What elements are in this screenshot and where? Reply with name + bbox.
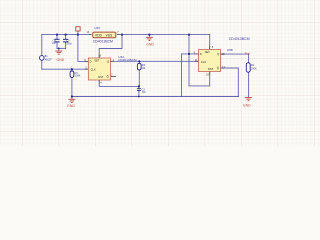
wire caps bottom join xyxy=(57,47,66,49)
wire C3 bottom stub xyxy=(138,91,140,97)
wire R3 top stub xyxy=(138,61,140,63)
junction C3 bottom on GND rail xyxy=(138,96,140,98)
ground on VSS rail xyxy=(146,37,153,40)
junction C5 on VDD rail xyxy=(65,34,67,36)
svg-text:GND: GND xyxy=(243,104,251,108)
pin 7 stub U3C xyxy=(116,34,120,36)
svg-text:100K: 100K xyxy=(251,67,257,70)
svg-text:100n: 100n xyxy=(66,42,72,45)
VCC power port xyxy=(76,27,80,31)
pin 12 stub U3B Qbar xyxy=(221,67,225,69)
wire R1 bottom to rail xyxy=(71,77,73,96)
wire R3 bottom xyxy=(138,70,140,87)
junction VCC port / D1 feed xyxy=(77,34,79,36)
svg-text:GND: GND xyxy=(146,42,154,46)
svg-text:D: D xyxy=(90,59,92,63)
wire C5 top stub xyxy=(65,35,67,39)
svg-text:Test: Test xyxy=(245,51,250,55)
wire VSS rail xyxy=(116,34,210,36)
svg-text:CLK: CLK xyxy=(201,60,206,64)
svg-text:GND: GND xyxy=(67,104,75,108)
wire C5 bottom stub xyxy=(65,42,67,48)
pin 14 stub U3C xyxy=(89,34,93,36)
wire VDD rail xyxy=(42,34,93,36)
wire C3 top stub xyxy=(138,86,140,88)
wire inner loop to RST2 xyxy=(189,54,210,86)
ground under caps xyxy=(55,51,62,54)
svg-text:Q̅: Q̅ xyxy=(217,66,219,70)
ground bottom rail xyxy=(68,99,75,102)
wire Q1 to CLK2 xyxy=(110,60,198,62)
wire bottom gnd stub xyxy=(71,97,73,100)
wire R1 top stub xyxy=(71,69,73,71)
junction D2 branch on VSS rail xyxy=(188,34,190,36)
pin 5 stub U3A D xyxy=(85,60,89,62)
junction dots xyxy=(56,34,190,98)
wire D2 row link xyxy=(182,53,199,55)
svg-text:Q: Q xyxy=(107,59,109,63)
pin 10 stub U3B RST xyxy=(209,72,211,76)
svg-text:GND: GND xyxy=(57,58,65,62)
svg-text:CD4013BCM: CD4013BCM xyxy=(118,58,137,62)
wire VDD to D1 feed xyxy=(78,35,88,62)
wire rail gnd stub xyxy=(148,35,150,37)
wire Q2 to R2 xyxy=(221,54,249,64)
wire VCC port stub xyxy=(77,31,79,35)
flip-flop U3A xyxy=(84,53,137,84)
buzzer LS1 xyxy=(40,55,53,61)
svg-text:10n: 10n xyxy=(142,91,147,94)
power part U3C (VDD/VSS) xyxy=(86,26,119,44)
pin 3 stub U3A CLK xyxy=(85,68,89,70)
junction C3 / R3 / RST1 xyxy=(138,85,140,87)
wire R2 bottom xyxy=(248,72,250,97)
capacitor C4 xyxy=(52,39,60,45)
svg-text:VSS: VSS xyxy=(106,34,113,38)
svg-text:AB12F: AB12F xyxy=(45,59,53,62)
svg-text:1M: 1M xyxy=(142,67,145,70)
svg-text:RST: RST xyxy=(98,75,104,79)
junction C4 on VDD rail xyxy=(56,34,58,36)
pin 13 stub U3B Q xyxy=(221,53,225,55)
svg-text:CD4013BCM: CD4013BCM xyxy=(229,37,250,41)
junction R1 on CLK1 wire xyxy=(71,68,73,70)
wire C4 top stub xyxy=(56,35,58,39)
svg-text:SET: SET xyxy=(94,59,100,63)
wire bottom rail xyxy=(72,96,238,98)
junction node D2 xyxy=(188,53,190,55)
wire D2 feed from rail xyxy=(188,35,190,54)
wire CLK1 feed xyxy=(42,68,89,70)
svg-text:RST: RST xyxy=(208,67,214,71)
wire VDD left drop to buzzer xyxy=(41,35,43,56)
svg-text:U3B: U3B xyxy=(227,48,233,52)
wire C4 bottom stub xyxy=(56,42,58,48)
resistor R1 xyxy=(70,71,81,78)
junction caps GND stem xyxy=(58,48,60,50)
wire outer left vertical xyxy=(181,54,183,97)
wire buzzer bottom to CLK row xyxy=(41,60,43,69)
flip-flop U3B xyxy=(194,37,250,77)
pin 11 stub U3B CLK xyxy=(195,60,199,62)
resistor R3 xyxy=(137,63,145,69)
capacitor C3 xyxy=(137,88,146,94)
svg-text:Q̅: Q̅ xyxy=(107,74,109,78)
svg-text:Q: Q xyxy=(217,52,219,56)
pin 9 stub U3B D xyxy=(195,53,199,55)
pin 1 stub U3A Q xyxy=(110,60,114,62)
wire SET2 feed xyxy=(209,35,211,50)
junction R1 bottom / GND rail xyxy=(71,95,73,97)
wire SET1 feed xyxy=(99,35,122,58)
svg-text:U3C: U3C xyxy=(94,26,101,30)
svg-text:SET: SET xyxy=(205,50,211,54)
svg-text:CLK: CLK xyxy=(91,67,96,71)
wire caps gnd stem xyxy=(58,48,60,50)
pin 4 stub U3A RST xyxy=(98,80,100,84)
pin stubs (dark pin segments at component boundaries) xyxy=(85,35,225,84)
wire RST1 to C3 xyxy=(99,80,139,86)
svg-text:D: D xyxy=(200,52,202,56)
svg-text:100K: 100K xyxy=(75,75,81,78)
junction R3 on Q1 wire xyxy=(138,60,140,62)
svg-text:VDD: VDD xyxy=(95,34,103,38)
ground under R2 xyxy=(245,98,252,101)
junction SET1 branch on VSS rail xyxy=(121,34,123,36)
pin 8 stub U3B SET xyxy=(209,46,211,50)
junction GND port on VSS rail xyxy=(148,34,150,36)
capacitor C5 xyxy=(63,39,73,45)
pin 6 stub U3A SET xyxy=(98,54,100,58)
pin stub Q1bar (unconnected pin 2) xyxy=(111,76,116,78)
svg-text:CD4013BCM: CD4013BCM xyxy=(93,40,113,44)
resistor R2 xyxy=(246,63,257,72)
wire Q2bar to bottom rail xyxy=(221,68,239,97)
